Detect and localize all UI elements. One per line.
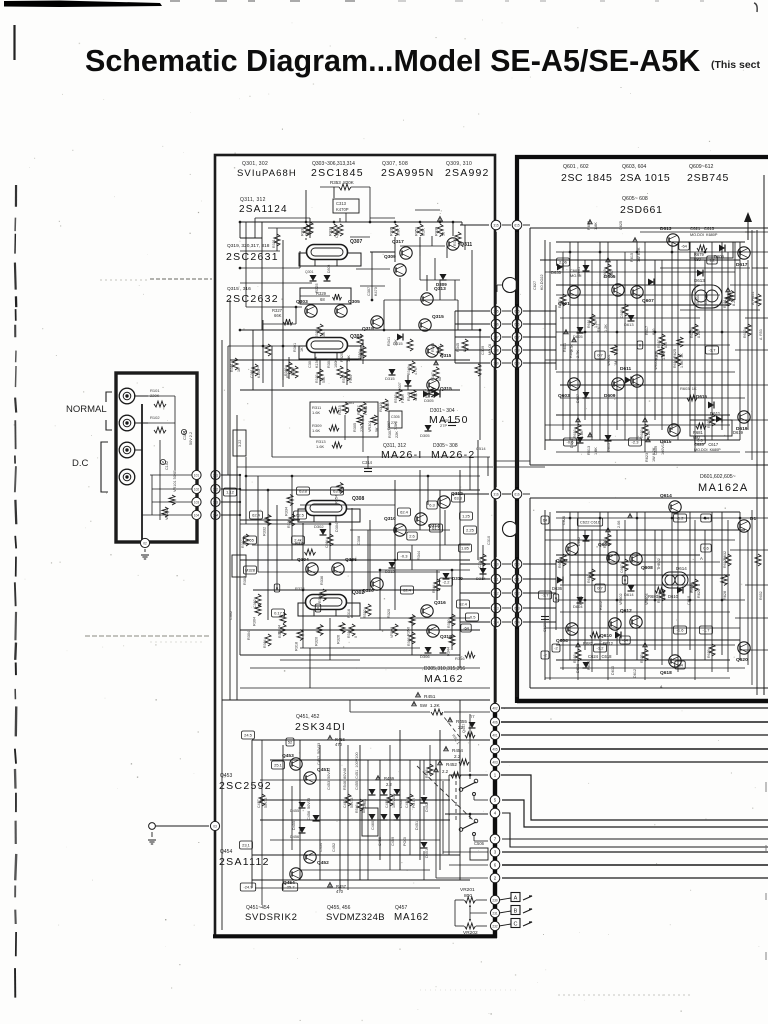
svg-text:Q319: Q319 bbox=[362, 326, 374, 332]
svg-text:C514: C514 bbox=[476, 446, 486, 451]
svg-text:R301: R301 bbox=[293, 343, 297, 352]
svg-text:THB02: THB02 bbox=[657, 558, 661, 570]
svg-text:R305: R305 bbox=[353, 423, 357, 432]
svg-text:R546: R546 bbox=[355, 804, 359, 813]
svg-text:56: 56 bbox=[442, 232, 446, 236]
svg-text:D614: D614 bbox=[624, 592, 634, 597]
svg-text:10K: 10K bbox=[347, 355, 351, 362]
svg-text:R614: R614 bbox=[587, 661, 591, 670]
svg-text:1.2: 1.2 bbox=[709, 258, 715, 263]
svg-text:Q610: Q610 bbox=[600, 633, 612, 639]
svg-text:0.7: 0.7 bbox=[597, 353, 603, 358]
svg-text:2SA992: 2SA992 bbox=[445, 167, 490, 179]
svg-text:R629: R629 bbox=[690, 329, 694, 338]
svg-text:8.2K: 8.2K bbox=[647, 430, 651, 438]
svg-text:2.25: 2.25 bbox=[466, 528, 475, 533]
svg-text:C620: C620 bbox=[543, 623, 547, 632]
svg-text:C302: C302 bbox=[253, 599, 257, 608]
svg-text:100K: 100K bbox=[291, 367, 295, 376]
svg-text:0: 0 bbox=[354, 636, 358, 638]
svg-text:2SC2592: 2SC2592 bbox=[219, 780, 272, 792]
svg-text:6.3: 6.3 bbox=[429, 503, 435, 508]
svg-text:C501: C501 bbox=[345, 401, 354, 405]
svg-text:R613: R613 bbox=[573, 429, 577, 438]
svg-text:R546 80V46: R546 80V46 bbox=[343, 768, 347, 790]
svg-text:R315: R315 bbox=[305, 227, 309, 236]
svg-text:D1: D1 bbox=[750, 516, 756, 522]
svg-text:K470: K470 bbox=[374, 287, 378, 296]
svg-text:-64: -64 bbox=[463, 626, 470, 631]
svg-text:K0.DO22: K0.DO22 bbox=[540, 274, 544, 290]
svg-text:D305: D305 bbox=[424, 398, 434, 403]
svg-text:Q310: Q310 bbox=[384, 516, 396, 522]
svg-text:101: 101 bbox=[194, 473, 200, 477]
svg-text:22K: 22K bbox=[360, 425, 364, 432]
svg-text:03: 03 bbox=[213, 824, 217, 828]
svg-text:R612: R612 bbox=[599, 601, 603, 610]
svg-text:MA26-I: MA26-I bbox=[381, 449, 423, 461]
svg-text:Q309: Q309 bbox=[384, 254, 396, 260]
svg-text:22K: 22K bbox=[395, 431, 399, 438]
svg-text:63.8: 63.8 bbox=[454, 496, 463, 501]
svg-text:C627: C627 bbox=[533, 281, 537, 290]
svg-text:3.22: 3.22 bbox=[238, 440, 242, 447]
svg-text:R517: R517 bbox=[342, 374, 346, 383]
svg-text:-0.6: -0.6 bbox=[567, 440, 575, 445]
svg-text:R344: R344 bbox=[447, 647, 451, 656]
svg-text:231: 231 bbox=[492, 911, 498, 915]
svg-text:C307: C307 bbox=[367, 287, 371, 296]
svg-text:C622 C616: C622 C616 bbox=[580, 520, 601, 525]
svg-text:Q451, 452: Q451, 452 bbox=[296, 714, 320, 720]
svg-text:C457 50V33: C457 50V33 bbox=[317, 743, 321, 765]
svg-text:R333: R333 bbox=[329, 227, 333, 236]
svg-text:C621 C615: C621 C615 bbox=[690, 226, 715, 231]
svg-text:6.8K: 6.8K bbox=[463, 344, 467, 352]
svg-text:D315: D315 bbox=[385, 376, 395, 381]
svg-text:Q319, 320,317, 318: Q319, 320,317, 318 bbox=[227, 243, 270, 249]
svg-text:MA162: MA162 bbox=[394, 912, 429, 923]
svg-text:R629: R629 bbox=[707, 649, 711, 658]
svg-text:615: 615 bbox=[514, 223, 520, 227]
svg-text:R332: R332 bbox=[263, 527, 267, 536]
svg-text:R354: R354 bbox=[335, 495, 339, 504]
svg-text:D306: D306 bbox=[420, 654, 430, 659]
svg-text:R625: R625 bbox=[640, 654, 644, 663]
svg-text:100V100: 100V100 bbox=[392, 794, 396, 808]
svg-text:C455: C455 bbox=[385, 799, 389, 808]
svg-text:R304: R304 bbox=[253, 617, 257, 626]
svg-text:R321: R321 bbox=[272, 239, 276, 248]
svg-text:R349: R349 bbox=[407, 366, 411, 375]
svg-text:MO.OI: MO.OI bbox=[488, 344, 492, 355]
svg-text:R515: R515 bbox=[394, 394, 398, 403]
svg-text:62.5: 62.5 bbox=[296, 513, 305, 518]
svg-text:D617: D617 bbox=[736, 262, 748, 268]
svg-text:56: 56 bbox=[460, 242, 464, 246]
svg-text:Q301, 302: Q301, 302 bbox=[242, 161, 268, 167]
svg-text:D610: D610 bbox=[668, 594, 679, 599]
svg-text:R326: R326 bbox=[337, 635, 341, 644]
svg-text:470: 470 bbox=[336, 889, 344, 894]
svg-text:D315: D315 bbox=[393, 341, 403, 346]
svg-text:R302: R302 bbox=[241, 539, 245, 548]
svg-text:R628: R628 bbox=[723, 591, 727, 600]
svg-text:C457: C457 bbox=[257, 799, 261, 808]
svg-text:1.8K: 1.8K bbox=[594, 222, 598, 230]
svg-text:102: 102 bbox=[194, 487, 200, 491]
svg-text:-2.2: -2.2 bbox=[443, 580, 451, 585]
svg-text:C302: C302 bbox=[229, 611, 233, 620]
svg-text:C301: C301 bbox=[250, 369, 254, 378]
svg-text:R615: R615 bbox=[630, 253, 634, 262]
svg-text:25.1: 25.1 bbox=[274, 763, 283, 768]
svg-text:5K: 5K bbox=[375, 427, 379, 432]
svg-text:R606: R606 bbox=[558, 559, 562, 568]
svg-text:R316: R316 bbox=[347, 609, 351, 618]
svg-text:Q455, 456: Q455, 456 bbox=[327, 905, 351, 911]
svg-text:VR602: VR602 bbox=[619, 593, 623, 605]
svg-text:C303: C303 bbox=[335, 229, 339, 238]
svg-text:2.2: 2.2 bbox=[454, 754, 461, 759]
svg-text:K150P: K150P bbox=[257, 367, 261, 378]
svg-text:R302: R302 bbox=[243, 576, 247, 585]
svg-text:R519: R519 bbox=[358, 351, 362, 360]
svg-text:R609: R609 bbox=[587, 221, 591, 230]
svg-text:R451: R451 bbox=[424, 694, 436, 700]
svg-text:1K: 1K bbox=[300, 347, 304, 352]
svg-text:50V 2.2: 50V 2.2 bbox=[189, 432, 193, 445]
svg-text:316: 316 bbox=[493, 492, 499, 496]
svg-text:R347: R347 bbox=[431, 372, 435, 381]
svg-text:63.8: 63.8 bbox=[299, 489, 308, 494]
svg-text:52: 52 bbox=[288, 740, 293, 745]
svg-text:Q614: Q614 bbox=[660, 493, 672, 499]
svg-text:D612: D612 bbox=[633, 669, 637, 678]
svg-text:R353 820K: R353 820K bbox=[330, 180, 354, 185]
svg-text:Q457: Q457 bbox=[395, 905, 407, 911]
svg-text:27P: 27P bbox=[440, 423, 447, 428]
svg-text:Q315 , 316: Q315 , 316 bbox=[227, 286, 251, 292]
svg-text:R102: R102 bbox=[150, 415, 160, 420]
svg-text:MO.DOI K680P: MO.DOI K680P bbox=[694, 448, 721, 452]
svg-text:Q452: Q452 bbox=[317, 860, 329, 866]
svg-text:R609: R609 bbox=[603, 269, 607, 278]
svg-text:C455: C455 bbox=[378, 837, 382, 846]
svg-text:C625: C625 bbox=[619, 221, 623, 230]
svg-text:VR202: VR202 bbox=[463, 930, 478, 936]
svg-text:2.6: 2.6 bbox=[409, 534, 415, 539]
svg-text:4.7K: 4.7K bbox=[414, 393, 418, 401]
svg-text:D456: D456 bbox=[290, 835, 299, 839]
svg-text:1.2K: 1.2K bbox=[604, 324, 608, 332]
svg-text:220K: 220K bbox=[150, 393, 160, 398]
svg-text:-1.7: -1.7 bbox=[542, 593, 550, 598]
svg-text:Q311, 312: Q311, 312 bbox=[240, 197, 266, 203]
svg-text:R611: R611 bbox=[587, 320, 591, 328]
svg-text:315: 315 bbox=[493, 223, 499, 227]
svg-text:C: C bbox=[514, 922, 518, 928]
svg-text:R339: R339 bbox=[435, 227, 439, 236]
svg-text:R325: R325 bbox=[315, 329, 319, 338]
svg-text:Q315: Q315 bbox=[440, 386, 452, 392]
svg-text:C453 50V33: C453 50V33 bbox=[327, 768, 331, 790]
svg-text:Q605~ 608: Q605~ 608 bbox=[622, 196, 648, 202]
svg-text:D.C: D.C bbox=[72, 458, 89, 469]
svg-text:Q618: Q618 bbox=[660, 670, 672, 676]
svg-text:Q451~454: Q451~454 bbox=[246, 905, 270, 911]
svg-text:R612: R612 bbox=[587, 574, 591, 583]
svg-text:C609: C609 bbox=[654, 446, 658, 455]
svg-text:1W 8.2K: 1W 8.2K bbox=[637, 247, 641, 262]
svg-text:R344: R344 bbox=[432, 584, 436, 593]
svg-text:Q604: Q604 bbox=[556, 638, 568, 644]
svg-text:D305: D305 bbox=[420, 433, 430, 438]
svg-text:D307: D307 bbox=[398, 382, 402, 391]
svg-text:R320: R320 bbox=[340, 353, 344, 362]
svg-text:2.06: 2.06 bbox=[559, 260, 568, 265]
svg-text:K150P: K150P bbox=[315, 356, 319, 368]
svg-text:Q316: Q316 bbox=[434, 600, 446, 606]
svg-text:-2.3: -2.3 bbox=[632, 440, 640, 445]
svg-text:(This sect: (This sect bbox=[711, 59, 761, 71]
svg-text:1K: 1K bbox=[237, 367, 241, 372]
svg-text:Q453: Q453 bbox=[282, 753, 294, 759]
svg-text:0.6: 0.6 bbox=[703, 546, 709, 551]
svg-text:-1.7: -1.7 bbox=[709, 348, 717, 353]
svg-text:616: 616 bbox=[514, 492, 520, 496]
svg-text:D303: D303 bbox=[327, 265, 331, 273]
svg-text:24.5: 24.5 bbox=[244, 733, 253, 738]
svg-text:R615: R615 bbox=[573, 654, 577, 663]
svg-text:R607: R607 bbox=[558, 299, 562, 308]
svg-text:10K: 10K bbox=[322, 331, 326, 338]
svg-text:1.8K: 1.8K bbox=[610, 270, 614, 278]
svg-text:R318: R318 bbox=[295, 642, 299, 651]
svg-text:D452: D452 bbox=[425, 803, 429, 812]
svg-text:SVDMZ324B: SVDMZ324B bbox=[326, 912, 385, 923]
svg-text:-25.7: -25.7 bbox=[285, 885, 295, 890]
svg-text:2SC1845: 2SC1845 bbox=[311, 167, 364, 179]
svg-text:PODI: PODI bbox=[403, 837, 407, 846]
svg-text:50V33: 50V33 bbox=[264, 798, 268, 808]
svg-text:R344: R344 bbox=[417, 551, 421, 560]
svg-text:2SB745: 2SB745 bbox=[687, 172, 729, 184]
svg-text:F560: F560 bbox=[349, 375, 353, 383]
svg-text:D613: D613 bbox=[694, 278, 705, 283]
svg-text:R326: R326 bbox=[287, 519, 291, 528]
svg-text:402: 402 bbox=[492, 706, 498, 710]
svg-text:VR102: VR102 bbox=[165, 508, 169, 520]
svg-text:5W 1.2K: 5W 1.2K bbox=[420, 703, 441, 709]
svg-text:80V46: 80V46 bbox=[362, 803, 366, 813]
svg-text:VR603 1K: VR603 1K bbox=[654, 351, 658, 370]
svg-text:D302: D302 bbox=[314, 524, 324, 529]
svg-text:SVDSRIK2: SVDSRIK2 bbox=[245, 912, 298, 923]
svg-text:R335: R335 bbox=[390, 227, 394, 236]
svg-text:R345: R345 bbox=[456, 343, 460, 352]
svg-text:F15K: F15K bbox=[401, 394, 405, 403]
svg-text:3.9K: 3.9K bbox=[397, 228, 401, 236]
svg-text:R631: R631 bbox=[723, 299, 727, 308]
svg-text:C455 C451 100V100: C455 C451 100V100 bbox=[355, 752, 359, 790]
svg-text:Q601 , 602: Q601 , 602 bbox=[563, 164, 589, 170]
svg-text:R351: R351 bbox=[415, 227, 419, 236]
svg-text:R452: R452 bbox=[446, 762, 457, 767]
svg-text:-0.3: -0.3 bbox=[401, 554, 409, 559]
svg-text:C308: C308 bbox=[357, 536, 361, 545]
svg-text:R604: R604 bbox=[579, 596, 583, 605]
svg-text:2SA 1015: 2SA 1015 bbox=[620, 172, 670, 184]
svg-text:VR302: VR302 bbox=[390, 627, 394, 638]
svg-text:232: 232 bbox=[492, 924, 498, 928]
svg-text:62.4: 62.4 bbox=[252, 513, 261, 518]
svg-text:R455: R455 bbox=[456, 719, 467, 724]
svg-text:C453: C453 bbox=[343, 799, 347, 808]
svg-text:R301: R301 bbox=[230, 363, 234, 372]
svg-text:R454: R454 bbox=[452, 748, 463, 753]
svg-text:401: 401 bbox=[492, 733, 498, 737]
svg-text:C506: C506 bbox=[474, 841, 485, 846]
svg-text:68: 68 bbox=[320, 297, 325, 302]
svg-text:R601: R601 bbox=[563, 343, 567, 352]
svg-text:VR201: VR201 bbox=[460, 887, 475, 893]
svg-text:50V33: 50V33 bbox=[350, 798, 354, 808]
svg-text:D452: D452 bbox=[399, 799, 403, 808]
svg-text:4.7K: 4.7K bbox=[414, 367, 418, 375]
svg-text:D611: D611 bbox=[620, 366, 632, 372]
svg-text:R337: R337 bbox=[453, 237, 457, 246]
svg-text:6.2K: 6.2K bbox=[422, 228, 426, 236]
svg-text:D310: D310 bbox=[452, 576, 463, 581]
svg-text:D619: D619 bbox=[733, 430, 744, 435]
svg-text:2SK34DI: 2SK34DI bbox=[295, 721, 346, 733]
svg-text:R652: R652 bbox=[759, 591, 763, 600]
svg-text:R627: R627 bbox=[707, 419, 711, 428]
svg-text:R626: R626 bbox=[697, 589, 701, 598]
svg-text:R336: R336 bbox=[318, 594, 322, 603]
svg-text:A: A bbox=[514, 896, 518, 902]
svg-text:D304: D304 bbox=[335, 523, 339, 532]
svg-text:1.8K: 1.8K bbox=[594, 447, 598, 455]
svg-text:C310: C310 bbox=[478, 559, 482, 568]
svg-text:2SC2632: 2SC2632 bbox=[226, 293, 279, 305]
svg-text:C452: C452 bbox=[332, 843, 336, 852]
svg-text:D601,602,605~: D601,602,605~ bbox=[700, 474, 736, 480]
svg-text:820: 820 bbox=[664, 342, 668, 348]
svg-text:R350: R350 bbox=[447, 619, 451, 628]
svg-text:MA26-2: MA26-2 bbox=[431, 449, 476, 461]
svg-text:A: A bbox=[700, 556, 703, 561]
svg-text:D309: D309 bbox=[436, 282, 447, 287]
svg-text:C305: C305 bbox=[391, 415, 400, 419]
svg-text:PO.DI: PO.DI bbox=[412, 798, 416, 808]
svg-text:R320: R320 bbox=[387, 609, 391, 618]
svg-text:1.2K: 1.2K bbox=[594, 320, 598, 328]
svg-text:MO.DOI K680P: MO.DOI K680P bbox=[690, 233, 718, 237]
svg-text:R630: R630 bbox=[690, 584, 694, 593]
svg-text:1.8K: 1.8K bbox=[580, 430, 584, 438]
svg-text:R610: R610 bbox=[603, 539, 607, 548]
svg-text:D305,310,315,316: D305,310,315,316 bbox=[424, 666, 465, 672]
svg-text:403: 403 bbox=[492, 760, 498, 764]
svg-text:1M: 1M bbox=[614, 361, 618, 366]
svg-text:R350: R350 bbox=[407, 627, 411, 636]
svg-text:MA162: MA162 bbox=[424, 673, 464, 685]
svg-text:Q304: Q304 bbox=[297, 557, 309, 563]
svg-text:Q607: Q607 bbox=[642, 298, 654, 304]
svg-text:Q612: Q612 bbox=[620, 608, 632, 614]
svg-text:02: 02 bbox=[143, 541, 147, 545]
svg-text:NORMAL: NORMAL bbox=[66, 404, 107, 415]
svg-text:Q315: Q315 bbox=[432, 314, 444, 320]
svg-text:R324: R324 bbox=[278, 629, 282, 638]
svg-text:104: 104 bbox=[194, 513, 200, 517]
svg-text:2.06: 2.06 bbox=[617, 521, 621, 528]
svg-text:C310: C310 bbox=[487, 536, 491, 545]
svg-text:MA162A: MA162A bbox=[698, 482, 749, 494]
svg-text:D613: D613 bbox=[624, 322, 634, 327]
svg-text:64: 64 bbox=[543, 518, 548, 523]
svg-text:R623: R623 bbox=[645, 453, 649, 462]
svg-text:1.25: 1.25 bbox=[462, 514, 471, 519]
svg-text:0.7: 0.7 bbox=[597, 586, 603, 591]
svg-text:R304: R304 bbox=[247, 631, 251, 640]
svg-text:R625: R625 bbox=[673, 349, 677, 358]
svg-text:2SC 1845: 2SC 1845 bbox=[561, 172, 613, 184]
svg-text:C460: C460 bbox=[371, 821, 375, 830]
svg-text:405: 405 bbox=[492, 747, 498, 751]
svg-text:D635: D635 bbox=[551, 270, 562, 275]
svg-text:Q609~612: Q609~612 bbox=[689, 164, 713, 170]
svg-text:470: 470 bbox=[335, 742, 343, 747]
svg-text:R334: R334 bbox=[285, 507, 289, 516]
svg-text:D609: D609 bbox=[714, 254, 725, 259]
svg-text:D613: D613 bbox=[660, 226, 672, 232]
svg-text:D610: D610 bbox=[611, 666, 615, 675]
svg-text:Q308: Q308 bbox=[352, 496, 364, 502]
svg-text:62.4: 62.4 bbox=[403, 588, 412, 593]
svg-text:0.17: 0.17 bbox=[274, 611, 283, 616]
svg-text:K470P: K470P bbox=[336, 207, 349, 212]
svg-text:R304: R304 bbox=[263, 639, 267, 648]
svg-text:Q318: Q318 bbox=[440, 634, 452, 640]
svg-text:R603 1K: R603 1K bbox=[680, 386, 697, 391]
svg-text:R303: R303 bbox=[284, 367, 288, 376]
svg-text:23.1: 23.1 bbox=[242, 843, 251, 848]
svg-text:R617: R617 bbox=[645, 326, 649, 335]
svg-text:Schematic Diagram...Model SE-A: Schematic Diagram...Model SE-A5/SE-A5K bbox=[85, 44, 700, 78]
svg-text:2.2: 2.2 bbox=[442, 769, 449, 774]
svg-text:33K: 33K bbox=[704, 298, 708, 305]
svg-text:TH601: TH601 bbox=[696, 294, 700, 305]
svg-text:68: 68 bbox=[438, 377, 442, 381]
svg-text:C459: C459 bbox=[391, 837, 395, 846]
svg-text:C304: C304 bbox=[325, 539, 329, 548]
svg-text:27P: 27P bbox=[391, 421, 398, 425]
svg-text:C314: C314 bbox=[362, 460, 373, 465]
svg-text:D455: D455 bbox=[290, 809, 299, 813]
svg-text:R323: R323 bbox=[315, 374, 319, 383]
svg-text:R613: R613 bbox=[587, 446, 591, 455]
svg-text:66K: 66K bbox=[274, 313, 282, 318]
svg-text:1.6K: 1.6K bbox=[312, 410, 321, 415]
svg-text:C623 C617: C623 C617 bbox=[694, 442, 719, 447]
svg-text:1.6K: 1.6K bbox=[316, 444, 325, 449]
svg-text:230: 230 bbox=[492, 898, 498, 902]
svg-text:8.2K: 8.2K bbox=[697, 330, 701, 338]
svg-text:C454: C454 bbox=[319, 843, 323, 852]
